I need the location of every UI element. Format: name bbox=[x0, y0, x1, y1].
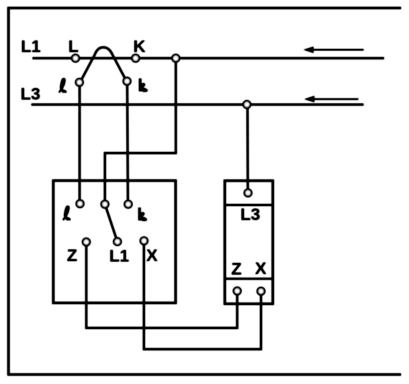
svg-text:L3: L3 bbox=[21, 85, 41, 104]
label k (script) bbox=[139, 79, 148, 92]
wire X meter to X aux bbox=[144, 244, 261, 349]
meter terminal k bbox=[125, 201, 132, 208]
wire L1 junction to meter (voltage tap) bbox=[105, 62, 176, 201]
junction node on L3 bbox=[244, 101, 251, 108]
meter terminal l bbox=[77, 200, 84, 207]
voltage link (middle terminal to L1 terminal) bbox=[106, 207, 116, 238]
wire L3 line bbox=[31, 104, 363, 106]
aux divider bottom bbox=[225, 278, 273, 280]
svg-text:L: L bbox=[68, 37, 78, 56]
terminal K on L1 bbox=[132, 55, 139, 62]
svg-text:Z: Z bbox=[67, 246, 77, 265]
label l (script) bbox=[58, 78, 66, 93]
aux terminal Z bbox=[234, 288, 241, 295]
meter box bbox=[53, 181, 175, 303]
terminal k (CT secondary) bbox=[124, 78, 131, 85]
label k inside meter (script) bbox=[138, 208, 147, 221]
aux terminal L3 bbox=[245, 190, 252, 197]
aux terminal X bbox=[258, 288, 265, 295]
arrow energy direction L3 bbox=[304, 96, 358, 102]
svg-text:L1: L1 bbox=[109, 246, 129, 265]
svg-text:Z: Z bbox=[231, 260, 241, 279]
svg-text:L3: L3 bbox=[240, 205, 260, 224]
meter terminal (middle) bbox=[102, 201, 109, 208]
arrow energy direction L1 bbox=[304, 47, 364, 53]
meter terminal X bbox=[141, 237, 148, 244]
terminal l (CT secondary) bbox=[76, 79, 83, 86]
CT primary hump l-k bbox=[82, 47, 125, 79]
svg-text:L1: L1 bbox=[21, 37, 41, 56]
meter terminal L1 bbox=[114, 238, 121, 245]
svg-text:X: X bbox=[146, 246, 158, 265]
wire l to meter bbox=[79, 86, 81, 200]
wire k to meter bbox=[126, 85, 129, 201]
aux device box bbox=[225, 181, 273, 304]
meter terminal Z bbox=[83, 239, 90, 246]
svg-text:K: K bbox=[133, 37, 146, 56]
wire L1 line bbox=[33, 57, 385, 59]
wire L3 junction to aux box bbox=[246, 108, 248, 189]
junction node on L1 bbox=[172, 55, 179, 62]
wire Z meter to Z aux bbox=[86, 245, 237, 328]
label l inside meter (script) bbox=[62, 206, 70, 221]
aux divider top bbox=[225, 204, 273, 206]
svg-text:X: X bbox=[255, 259, 267, 278]
terminal L on L1 bbox=[72, 55, 79, 62]
